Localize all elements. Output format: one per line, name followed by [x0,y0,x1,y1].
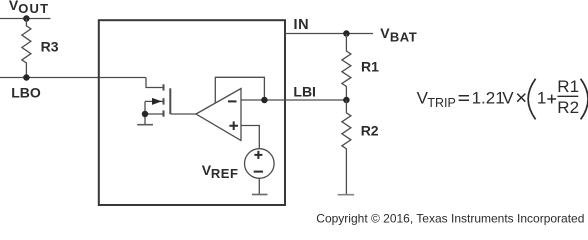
equation VTRIP = 1.21 V x (1 + R1/R2) [417,77,579,117]
svg-text:Copyright © 2016, Texas Instru: Copyright © 2016, Texas Instruments Inco… [316,211,584,225]
svg-text:BAT: BAT [390,30,417,45]
junction LBI [343,97,350,104]
net label VOUT [9,0,49,16]
net label VBAT [380,25,417,44]
svg-text:IN: IN [294,17,310,33]
VREF minus symbol [254,171,263,173]
wire IN to VBAT [285,33,373,35]
op-amp comparator U1 [196,89,241,141]
equation left parenthesis [528,79,535,120]
ground (Q1 source) [137,124,153,126]
equation equals sign [459,96,469,101]
equation multiply sign [517,94,525,102]
wire VREF to ground [258,178,260,194]
IC box [99,20,285,205]
wire Q1 source to ground [144,101,146,124]
svg-text:1.21: 1.21 [472,89,505,108]
svg-text:LBI: LBI [293,83,316,99]
wire LBO [0,77,146,79]
svg-text:R2: R2 [361,123,379,139]
equation plus sign [547,95,556,104]
transistor Q1 gate bar [169,88,171,114]
svg-text:R3: R3 [41,38,59,54]
junction VBAT [343,30,350,37]
VREF plus symbol [254,151,262,159]
wire non-inverting input to VREF [241,126,259,150]
ground (VREF) [252,194,268,196]
label VREF [202,162,239,181]
svg-text:TRIP: TRIP [427,96,455,110]
svg-text:R1: R1 [557,77,579,96]
svg-text:LBO: LBO [11,85,41,101]
transistor Q1 channel bars [163,84,165,116]
svg-text:V: V [502,89,514,108]
svg-text:OUT: OUT [18,1,49,16]
comparator inverting input symbol [228,100,237,102]
junction VOUT/R3 [23,15,30,22]
junction feedback/inverting input [261,97,268,104]
svg-text:R2: R2 [557,98,579,117]
svg-text:1: 1 [537,89,546,108]
wire inverting input / LBI [241,99,346,101]
junction Q1 source/body [142,111,149,118]
resistor R1 [342,34,351,101]
wire Q1 source [145,113,163,115]
wire Q1 drain [146,78,163,88]
wire Q1 gate to comparator output [170,113,196,115]
equation fraction bar [557,95,578,97]
wire VOUT [0,18,51,20]
resistor R2 [342,100,351,195]
svg-text:REF: REF [211,166,239,181]
voltage source VREF [244,149,274,179]
svg-text:V: V [380,25,390,41]
junction LBO/R3 [23,74,30,81]
equation right parenthesis [581,79,588,120]
svg-text:R1: R1 [361,58,379,74]
comparator non-inverting input symbol [229,121,238,130]
ground (R2) [338,194,355,196]
transistor Q1 body arrow [152,98,162,105]
hysteresis feedback wire [215,77,264,103]
resistor R3 [22,19,31,78]
wire Q1 body [145,100,163,102]
